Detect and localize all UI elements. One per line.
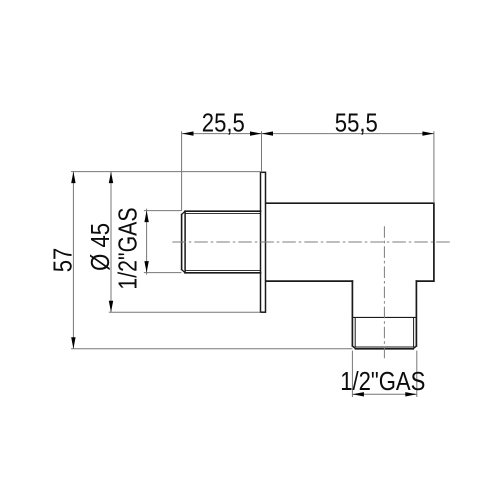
dimension bottom 1/2"GAS arrows (352, 392, 416, 396)
dimension 25,5 line (182, 131, 262, 211)
dimension Ø45 text (86, 223, 115, 271)
horizontal centerline (172, 241, 450, 243)
wall flange (261, 172, 266, 312)
body (266, 203, 434, 281)
inlet threaded pipe (182, 211, 261, 273)
dimension Ø45 line (109, 172, 261, 313)
dimension 57 arrows (71, 172, 75, 349)
svg-text:Ø 45: Ø 45 (86, 223, 115, 271)
svg-text:25,5: 25,5 (202, 109, 245, 138)
dimension 55,5 line (262, 131, 434, 203)
svg-text:55,5: 55,5 (335, 109, 378, 138)
dimension 55,5 text (335, 109, 378, 138)
dimension bottom 1/2"GAS line (352, 351, 416, 397)
svg-text:57: 57 (49, 248, 78, 273)
dimension side 1/2"GAS arrows (144, 211, 148, 273)
dimension bottom 1/2"GAS text (340, 367, 425, 396)
dimension 57 line (71, 172, 352, 349)
svg-text:1/2"GAS: 1/2"GAS (114, 207, 144, 289)
dimension 25,5 text (202, 109, 245, 138)
dimension Ø45 arrows (109, 172, 113, 313)
svg-text:1/2"GAS: 1/2"GAS (340, 367, 425, 396)
dimension 57 text (49, 248, 78, 273)
vertical centerline (383, 226, 385, 358)
dimension 55,5 arrows (262, 131, 434, 135)
dimension 25,5 arrows (182, 131, 262, 135)
dimension side 1/2"GAS line (144, 209, 182, 275)
dimension side 1/2"GAS text (114, 207, 144, 289)
outlet pipe (352, 281, 416, 349)
